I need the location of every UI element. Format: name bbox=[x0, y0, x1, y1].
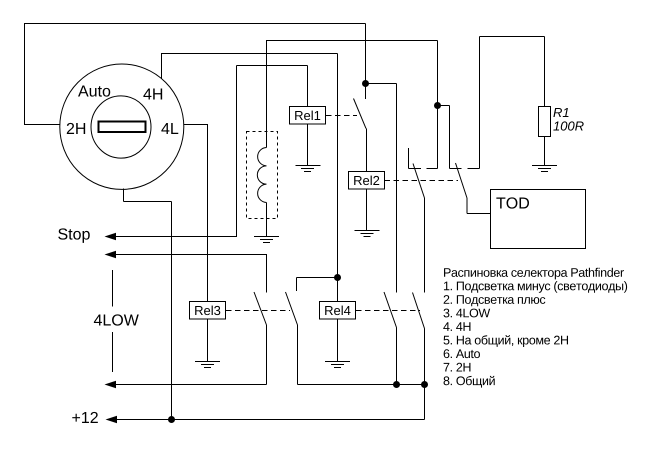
ground below coil bbox=[254, 236, 279, 238]
switch D blade bbox=[413, 293, 425, 329]
wire left vertical from L1 to 2H bbox=[24, 23, 26, 125]
wire switch B bottom contact down bbox=[297, 325, 299, 385]
wire top bus L1 bbox=[24, 23, 366, 25]
switch SW1 blade bbox=[354, 99, 367, 129]
ground below R1 bbox=[532, 165, 557, 167]
arrow Stop line 2 bbox=[105, 251, 117, 259]
switch SW2 blade bbox=[413, 164, 425, 199]
junction node B bbox=[434, 102, 441, 109]
arrow Stop line 1 bbox=[105, 233, 117, 241]
label 100R bbox=[553, 121, 583, 130]
ground below Rel4 bbox=[325, 361, 350, 363]
coil dashed enclosure box bbox=[247, 132, 278, 219]
switch C blade bbox=[384, 292, 397, 328]
wire bus L3 bbox=[161, 53, 338, 55]
wire Stop line 2 down to switch A bbox=[266, 255, 268, 293]
junction node on +12 line bbox=[168, 416, 175, 423]
junction node at Rel4 top bbox=[334, 274, 341, 281]
ground below Rel2 bbox=[355, 230, 380, 232]
selector switch outer circle bbox=[60, 64, 184, 189]
label 4LOW bbox=[94, 314, 139, 325]
pinout item 8 bbox=[444, 376, 495, 388]
pinout item 5 bbox=[444, 335, 569, 347]
wire switch D bottom contact down bbox=[424, 329, 426, 385]
wire Rel2 dashed actuation link bbox=[385, 180, 459, 182]
pinout item 4 bbox=[443, 322, 470, 331]
wire L4 right end down to Rel1 bbox=[307, 66, 309, 107]
wire L2 down to coil bbox=[266, 41, 268, 148]
wire R1 top bracket bbox=[480, 36, 545, 38]
label Auto bbox=[78, 85, 110, 96]
wire 4LOW bottom line right bbox=[298, 384, 425, 386]
junction node switch D bottom bbox=[421, 381, 428, 388]
wire +12 line bbox=[116, 419, 425, 421]
arrow 4LOW line bbox=[105, 381, 117, 389]
wire selector bottom lead right bbox=[124, 201, 172, 203]
wire switch C bottom contact down bbox=[396, 328, 398, 385]
wire Rel4 dashed actuation link bbox=[356, 310, 420, 312]
TOD control unit box bbox=[491, 190, 586, 249]
wire SW3 left post bbox=[449, 106, 451, 169]
wire Stop line 1 bbox=[115, 236, 237, 238]
label R1 bbox=[553, 108, 568, 117]
wire down to switch C top contact bbox=[396, 84, 398, 293]
wire SW1 bottom contact to Rel2 bbox=[366, 129, 368, 172]
wire SW3 left post foot bbox=[450, 168, 462, 170]
wire 2H lead bbox=[24, 124, 60, 126]
relay Rel4 bbox=[320, 302, 356, 320]
wire SW2 left post foot bbox=[409, 168, 422, 170]
wire 4L lead bbox=[184, 124, 209, 126]
label Stop bbox=[58, 228, 90, 242]
wire L1 right end down to node A bbox=[365, 24, 367, 84]
wire R1 bottom lead to ground bbox=[544, 137, 546, 166]
switch B blade bbox=[286, 292, 298, 325]
arrow +12 line bbox=[106, 416, 118, 424]
selector switch inner circle bbox=[91, 96, 151, 158]
label 4H position bbox=[143, 88, 162, 99]
wire R1 top lead bbox=[544, 37, 546, 107]
wire node B bracket right bbox=[438, 105, 450, 107]
switch SW3 blade bbox=[456, 163, 468, 198]
wire switch SW1 top contact stub bbox=[365, 84, 367, 100]
wire L4 left end down to Stop line bbox=[236, 66, 238, 238]
pinout item 3 bbox=[443, 309, 490, 318]
pinout item 7 bbox=[444, 363, 471, 372]
wire L2 right end down bbox=[437, 41, 439, 169]
relay Rel2 bbox=[349, 172, 385, 190]
wire SW2 right post bbox=[437, 106, 439, 169]
wire SW2 left post bbox=[408, 148, 410, 169]
wire L3 down to Rel4 bbox=[337, 54, 339, 302]
wire SW3 right post from R1 bracket bbox=[479, 37, 481, 169]
coil (transfer motor solenoid) bbox=[257, 148, 266, 203]
label +12 bbox=[72, 412, 98, 423]
wire Rel4 top lead bbox=[337, 278, 339, 302]
wire selector bottom lead down bbox=[123, 189, 125, 202]
ground below Rel1 bbox=[296, 165, 321, 167]
wire 4H lead up bbox=[161, 54, 163, 80]
wire 4LOW bracket upper segment bbox=[112, 270, 114, 307]
wire Rel4 lead to ground bbox=[337, 319, 339, 362]
wire 4L down to Rel3 bbox=[207, 125, 209, 302]
wire Rel3 lead to ground bbox=[207, 319, 209, 362]
pinout item 6 bbox=[444, 349, 480, 358]
wire 4LOW bracket lower segment bbox=[112, 332, 114, 372]
ground below Rel3 bbox=[195, 361, 220, 363]
wire 4LOW bottom line left bbox=[115, 384, 267, 386]
wire switch D top contact bbox=[424, 198, 426, 293]
wire Stop line 2 bbox=[115, 254, 267, 256]
wire bus L2 bbox=[266, 40, 438, 42]
relay Rel3 bbox=[190, 302, 226, 320]
pinout item 2 bbox=[444, 295, 546, 306]
wire Rel1 dashed actuation link bbox=[326, 115, 357, 117]
wire down to +12 line bbox=[171, 202, 173, 420]
wire Rel1 lead to ground bbox=[307, 124, 309, 166]
wire coil bottom lead to ground bbox=[266, 202, 268, 236]
wire SW3 output to TOD bbox=[467, 213, 491, 215]
junction node A bbox=[362, 80, 369, 87]
wire +12 riser bbox=[424, 385, 426, 420]
pinout text block title bbox=[444, 268, 624, 280]
wire Rel2 lead to ground bbox=[366, 189, 368, 231]
pinout item 1 bbox=[444, 281, 627, 293]
selector knob slot bbox=[99, 122, 146, 133]
wire node A branch right bbox=[366, 83, 397, 85]
wire SW3 output down bbox=[466, 198, 468, 214]
wire SW2 right post foot bbox=[427, 168, 438, 170]
label 4L position bbox=[161, 123, 178, 134]
wire switch B top bracket bbox=[297, 277, 338, 279]
wire SW3 right post foot bbox=[468, 168, 480, 170]
switch A blade bbox=[254, 292, 267, 325]
resistor R1 bbox=[539, 107, 551, 137]
label 2H position bbox=[67, 123, 85, 134]
relay Rel1 bbox=[290, 107, 326, 125]
junction node switch C bottom bbox=[393, 381, 400, 388]
wire bus L4 bbox=[237, 65, 308, 67]
wire Rel3 dashed actuation link bbox=[226, 310, 290, 312]
wire switch B top contact stub bbox=[296, 278, 298, 292]
wire switch A bottom contact down bbox=[266, 325, 268, 385]
